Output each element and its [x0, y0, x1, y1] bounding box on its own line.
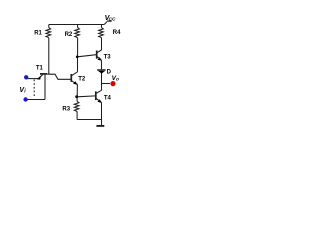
- svg-text:o: o: [116, 77, 119, 82]
- svg-text:R3: R3: [62, 107, 70, 113]
- svg-text:R1: R1: [34, 31, 42, 37]
- svg-text:T1: T1: [36, 66, 44, 72]
- svg-text:T4: T4: [104, 95, 112, 101]
- svg-text:CC: CC: [109, 17, 116, 23]
- svg-text:R2: R2: [65, 32, 73, 38]
- svg-text:T2: T2: [78, 77, 86, 83]
- svg-text:i: i: [24, 89, 26, 95]
- svg-text:R4: R4: [113, 30, 121, 36]
- svg-text:T3: T3: [104, 55, 112, 61]
